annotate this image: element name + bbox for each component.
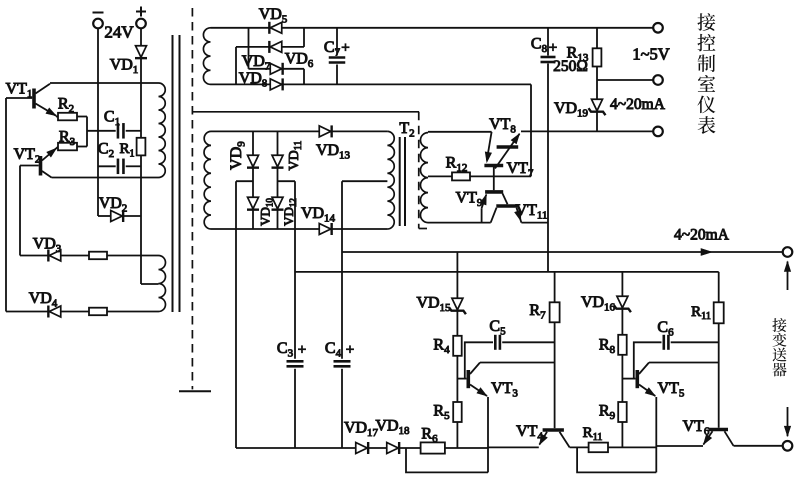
svg-text:+: + bbox=[346, 342, 354, 358]
svg-text:4~20mA: 4~20mA bbox=[674, 226, 730, 243]
svg-text:250Ω: 250Ω bbox=[553, 58, 588, 75]
svg-text:24V: 24V bbox=[104, 23, 134, 42]
svg-text:+: + bbox=[298, 342, 306, 358]
svg-text:+: + bbox=[549, 40, 557, 56]
svg-text:+: + bbox=[341, 40, 349, 56]
svg-text:1~5V: 1~5V bbox=[632, 44, 669, 63]
svg-text:4~20mA: 4~20mA bbox=[610, 96, 666, 113]
